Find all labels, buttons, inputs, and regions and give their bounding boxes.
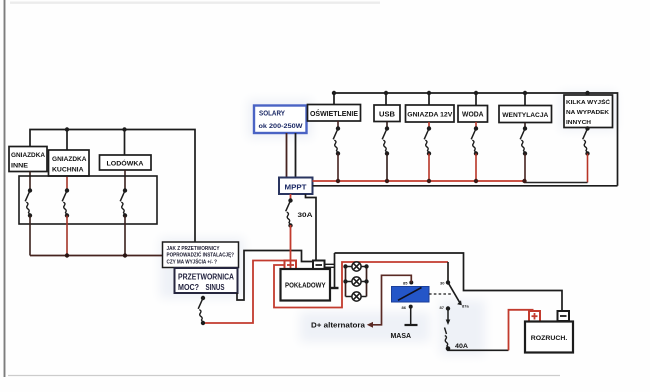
svg-text:POPROWADZIĆ INSTALACJĘ?: POPROWADZIĆ INSTALACJĘ?	[167, 251, 235, 259]
svg-text:POKŁADOWY: POKŁADOWY	[285, 281, 326, 290]
svg-text:WODA: WODA	[462, 112, 484, 119]
svg-text:USB: USB	[379, 111, 395, 118]
svg-text:ok 200-250W: ok 200-250W	[259, 123, 304, 130]
svg-text:40A: 40A	[455, 343, 468, 350]
svg-text:OŚWIETLENIE: OŚWIETLENIE	[310, 109, 358, 118]
svg-text:87: 87	[440, 305, 445, 310]
svg-text:KILKA WYJŚĆ: KILKA WYJŚĆ	[566, 98, 611, 106]
svg-text:MOC?: MOC?	[178, 282, 199, 292]
svg-text:WENTYLACJA: WENTYLACJA	[502, 112, 548, 119]
svg-text:87a: 87a	[462, 304, 469, 309]
svg-text:MASA: MASA	[391, 331, 412, 340]
svg-text:SINUS: SINUS	[206, 282, 225, 292]
svg-text:GNIAZDA 12V: GNIAZDA 12V	[407, 111, 453, 118]
svg-text:KUCHNIA: KUCHNIA	[52, 167, 84, 174]
svg-text:CZY MA WYJŚCIA +/- ?: CZY MA WYJŚCIA +/- ?	[167, 258, 218, 265]
svg-text:GNIAZDKA: GNIAZDKA	[11, 152, 45, 159]
svg-text:ROZRUCH.: ROZRUCH.	[531, 335, 568, 342]
svg-text:85: 85	[403, 280, 408, 285]
svg-text:NA WYPADEK: NA WYPADEK	[566, 110, 610, 116]
svg-text:30A: 30A	[298, 212, 313, 219]
svg-text:D+ alternatora: D+ alternatora	[311, 323, 365, 330]
svg-text:JAK Z PRZETWORNICY: JAK Z PRZETWORNICY	[167, 246, 220, 252]
svg-text:PRZETWORNICA: PRZETWORNICA	[178, 272, 234, 282]
svg-text:INNE: INNE	[11, 163, 28, 170]
svg-text:INNYCH: INNYCH	[566, 120, 591, 126]
svg-text:GNIAZDKA: GNIAZDKA	[52, 156, 87, 163]
svg-text:SOLARY: SOLARY	[259, 111, 285, 118]
svg-text:30: 30	[440, 281, 445, 286]
svg-text:LODÓWKA: LODÓWKA	[107, 159, 144, 168]
svg-text:86: 86	[402, 305, 407, 310]
svg-text:MPPT: MPPT	[285, 183, 308, 192]
